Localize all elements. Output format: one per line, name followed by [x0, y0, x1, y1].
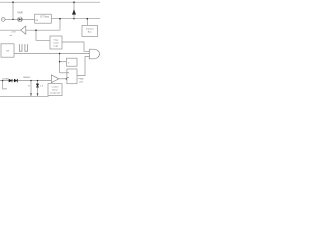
box flip-flop U3	[67, 69, 77, 84]
wire arrow branch x=74	[73, 2, 75, 19]
wire bottom sense line	[0, 80, 52, 82]
wire left drop and stub	[3, 81, 7, 89]
arrowhead resistor to rail	[30, 93, 32, 96]
svg-text:S-T Vect: S-T Vect	[40, 15, 49, 18]
svg-text:VAR: VAR	[17, 11, 22, 15]
AC source G1	[1, 18, 5, 22]
wire vertical x=60 to mid rail	[59, 19, 61, 31]
junction dots	[2, 1, 88, 81]
svg-text:CN: CN	[6, 50, 10, 52]
node mid rail branch	[35, 29, 37, 31]
wire flipflop feedback to gate input 3	[77, 57, 89, 76]
arrowhead diode to rail	[37, 93, 39, 96]
wire comparator output to flipflop	[59, 78, 67, 80]
svg-text:Sense: Sense	[52, 89, 59, 91]
box latch T	[67, 58, 78, 66]
wire bottom rail	[0, 95, 49, 97]
varistor D0	[18, 17, 23, 22]
node bus drop	[87, 18, 89, 20]
wire gray box to gate input 1	[62, 42, 90, 51]
svg-text:Count: Count	[53, 42, 59, 45]
wire branch down from mid rail	[36, 30, 50, 40]
svg-text:Internal: Internal	[86, 28, 94, 31]
svg-text:1N4002: 1N4002	[23, 77, 31, 79]
svg-text:Limit: Limit	[79, 81, 84, 84]
svg-text:Logic: Logic	[54, 46, 59, 48]
box current sense comparator	[48, 84, 62, 96]
box U1 S-T vector modulator	[35, 14, 52, 23]
svg-text:115VAC: 115VAC	[2, 77, 9, 80]
diode D1	[9, 79, 12, 83]
diode D3 vertical	[36, 84, 39, 87]
op-amp A1 (points left)	[21, 26, 26, 34]
node input wire	[12, 19, 13, 20]
wire to flipflop pin 1	[60, 72, 67, 74]
box internal bus	[82, 26, 98, 37]
wire mid rail left of amp	[0, 29, 21, 31]
wire top DC rail	[0, 1, 100, 3]
svg-text:PWM: PWM	[79, 79, 84, 81]
wire drop to internal bus box	[86, 19, 88, 26]
box line converter GN	[1, 44, 14, 57]
node arrow top	[73, 1, 75, 3]
diode branch vertical	[37, 81, 39, 97]
arrow up on branch	[72, 9, 76, 14]
node comparator out	[66, 78, 67, 79]
diode D2	[14, 79, 17, 83]
wire AC source to varistor	[5, 18, 18, 20]
svg-text:Current: Current	[52, 85, 59, 88]
wire varistor to modulator box	[22, 18, 34, 20]
wire to latch box	[60, 61, 67, 63]
wire vertical from top rail to input wire	[12, 2, 14, 19]
node top-left	[12, 1, 14, 3]
resistor R branch	[30, 81, 32, 97]
connector J1	[19, 45, 29, 51]
node gate input 2 branch	[59, 53, 60, 54]
svg-text:2.5V: 2.5V	[11, 32, 16, 34]
comparator A2	[51, 75, 58, 83]
node arrow bottom	[73, 18, 74, 19]
node diode tap	[37, 80, 38, 81]
wire junction drop x=59.6	[59, 54, 61, 73]
svg-text:ref.: ref.	[9, 34, 12, 37]
node x60	[59, 18, 61, 20]
node resistor tap	[30, 80, 31, 81]
node latch wire	[59, 61, 60, 62]
wire modulator output to right edge	[51, 18, 100, 20]
wire mid rail right of amp	[26, 29, 60, 31]
svg-text:Comparator: Comparator	[50, 91, 61, 94]
wire long gate input 2	[14, 53, 90, 55]
node bottom left	[2, 80, 3, 81]
and gate U2	[89, 49, 99, 59]
box gray code logic	[50, 36, 62, 49]
